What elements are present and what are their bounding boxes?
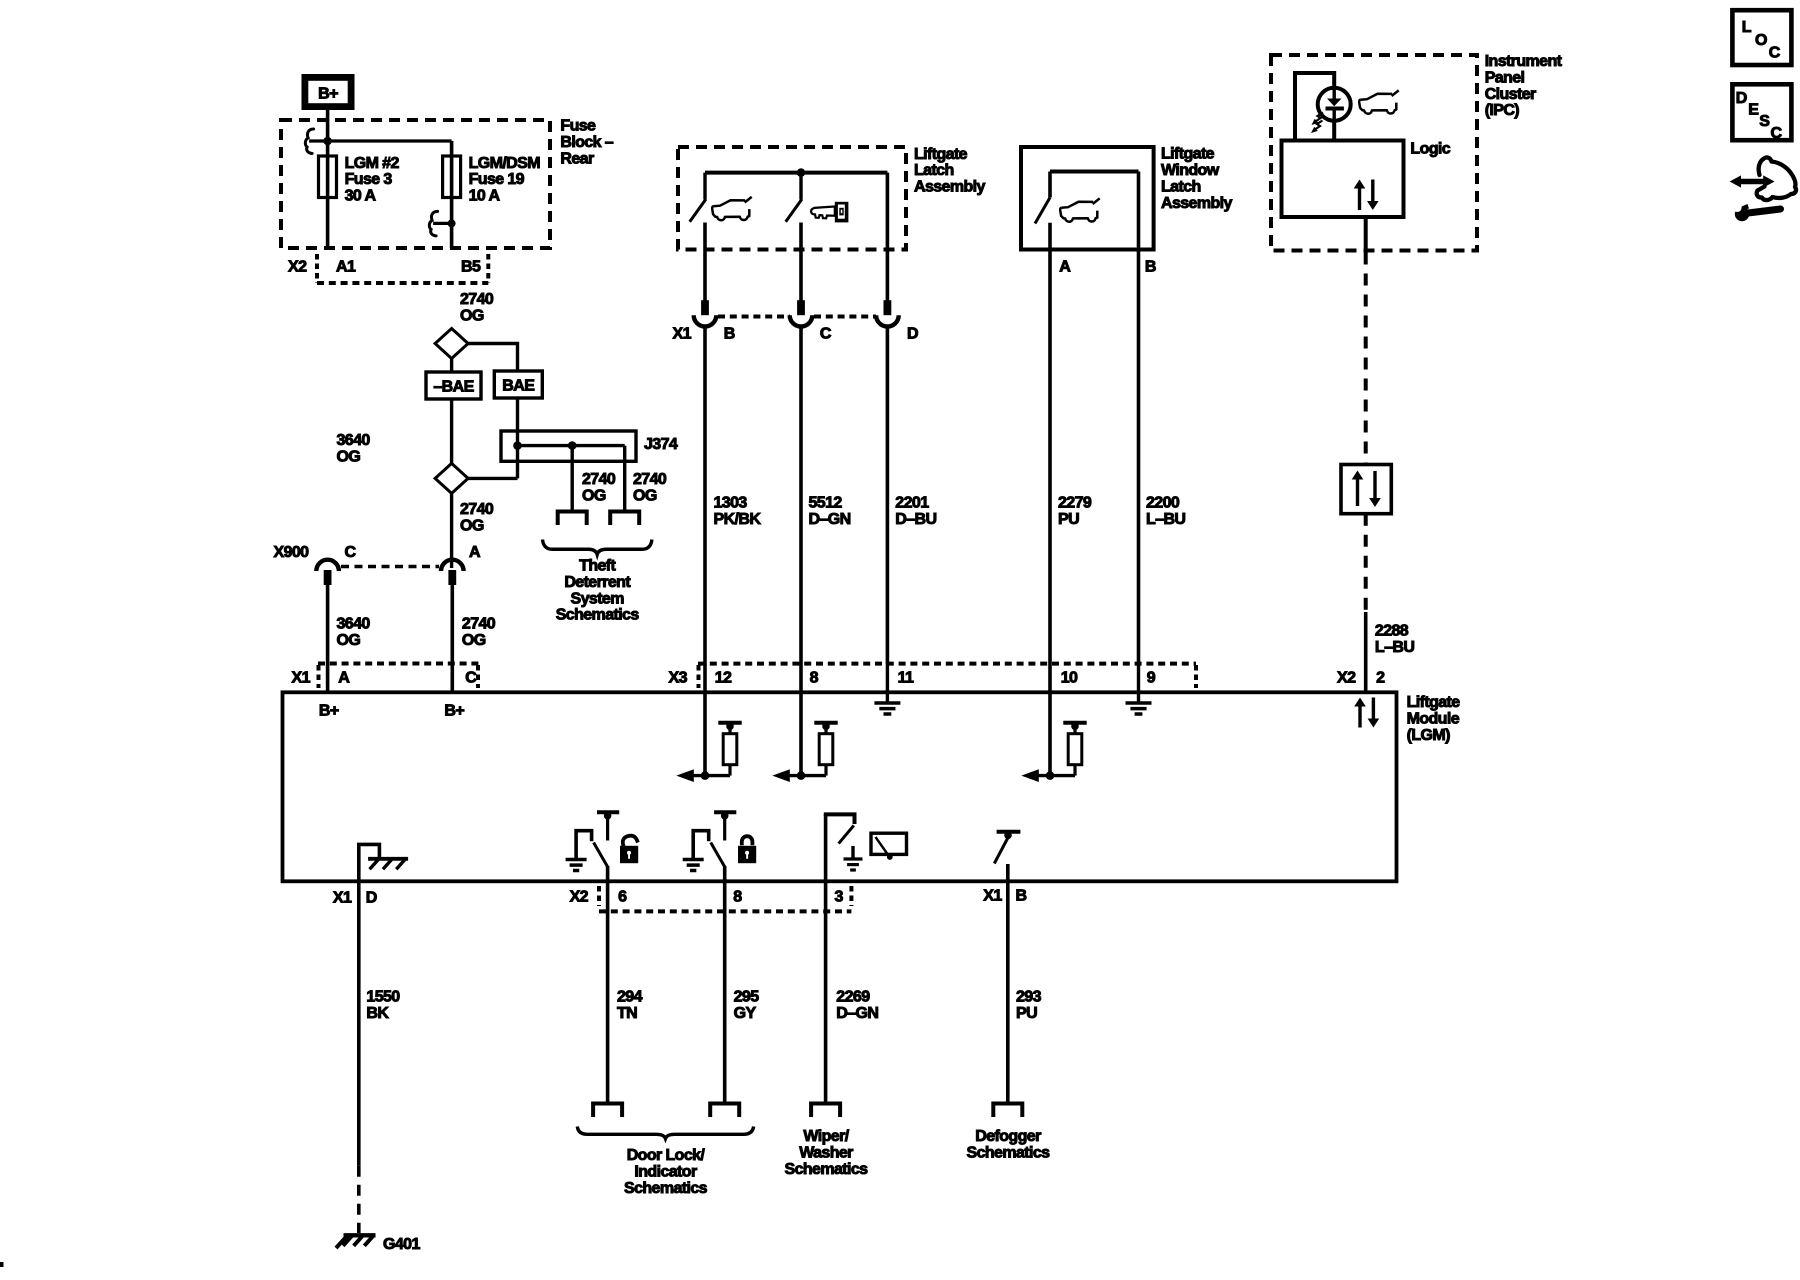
- wire 2279 PU: [1048, 223, 1052, 664]
- wire: X900-C to LGM X1-A: [326, 584, 330, 692]
- svg-text:E: E: [1748, 102, 1759, 119]
- svg-text:D: D: [366, 890, 377, 907]
- wire 5512 D-GN: [799, 326, 803, 664]
- liftgate latch assembly dashed box: [678, 147, 906, 250]
- label: Logic: [1410, 140, 1450, 157]
- pin 9 label: [1147, 670, 1156, 687]
- terminal to theft deterrent 1: [558, 512, 587, 526]
- logic up/down arrows: [1354, 180, 1379, 211]
- wire label 2279 PU: [1058, 495, 1092, 528]
- wire 293 PU: [1006, 882, 1010, 1104]
- svg-text:G401: G401: [383, 1236, 420, 1253]
- LED indicator: [1318, 88, 1351, 121]
- internal pull-up pin 10: [1021, 664, 1086, 782]
- svg-text:FuseBlock –Rear: FuseBlock –Rear: [560, 118, 613, 168]
- wire label 295 GY: [734, 989, 760, 1022]
- pin 3 label: [835, 889, 844, 906]
- svg-text:2269D–GN: 2269D–GN: [836, 989, 878, 1022]
- unlock switch pin 6: [566, 812, 620, 882]
- pin 8 label (bottom): [733, 889, 742, 906]
- liftgate module LGM box: [283, 692, 1397, 881]
- battery feed symbol B+: [305, 77, 351, 106]
- unlock padlock icon: [620, 836, 638, 864]
- wire: J374 to theft terminal 1: [571, 446, 574, 512]
- terminal to theft deterrent 2: [610, 512, 639, 526]
- terminal 294: [593, 1104, 622, 1118]
- svg-text:6: 6: [618, 889, 627, 906]
- fuse LGM/DSM Fuse 19 10A: [443, 156, 461, 198]
- label: X1 (latch): [673, 326, 692, 343]
- svg-text:2740OG: 2740OG: [633, 471, 667, 504]
- connector X900 pin C: [316, 560, 339, 585]
- svg-text:LGM #2Fuse 330 A: LGM #2Fuse 330 A: [345, 155, 400, 205]
- terminal 293: [993, 1104, 1022, 1118]
- label: X2: [288, 259, 307, 276]
- wire label 2288 L-BU: [1375, 623, 1414, 656]
- wire: J374 to theft terminal 2: [623, 446, 626, 512]
- svg-text:A1: A1: [336, 259, 356, 276]
- svg-text:2288L–BU: 2288L–BU: [1375, 623, 1414, 656]
- terminal 2269: [811, 1104, 840, 1118]
- svg-text:A: A: [469, 544, 481, 561]
- svg-text:295GY: 295GY: [734, 989, 760, 1022]
- internal pull-up pin 12: [676, 664, 741, 782]
- svg-text:B5: B5: [461, 259, 481, 276]
- svg-text:D: D: [907, 326, 918, 343]
- car icon (window latch): [1060, 198, 1100, 221]
- label: X2 bottom: [570, 889, 589, 906]
- pin B label (window latch): [1145, 259, 1156, 276]
- label: Liftgate Module (LGM): [1407, 694, 1461, 744]
- wire: 2288 L-BU to LGM X2-2: [1364, 612, 1368, 692]
- pin A label (LGM): [338, 670, 350, 687]
- pin 11 label: [898, 670, 914, 687]
- latch internal bus: [705, 168, 887, 177]
- fuse block rear dashed box: [281, 120, 550, 248]
- svg-text:B+: B+: [444, 703, 464, 720]
- pin B label (bottom): [1016, 888, 1027, 905]
- wire: splice to BAE: [468, 344, 517, 372]
- instrument panel cluster dashed box: [1271, 55, 1477, 251]
- wire: splice through -BAE: [450, 359, 453, 464]
- svg-text:X2: X2: [570, 889, 589, 906]
- indicator housing: [1295, 73, 1334, 141]
- wire label 2269 D-GN: [836, 989, 878, 1022]
- dashed wire: arrow box to 2288: [1364, 514, 1368, 612]
- label: X900: [274, 544, 310, 561]
- label: Liftgate Latch Assembly: [914, 146, 985, 196]
- label: LGM/DSM Fuse 19 10 A: [469, 155, 541, 205]
- svg-text:B: B: [1016, 888, 1027, 905]
- svg-text:Logic: Logic: [1410, 140, 1450, 157]
- brace theft deterrent: [543, 540, 652, 555]
- svg-text:C: C: [465, 670, 477, 687]
- DESC reference box: [1732, 84, 1791, 142]
- svg-text:DefoggerSchematics: DefoggerSchematics: [967, 1128, 1051, 1161]
- key icon: [811, 202, 848, 223]
- car icon (IPC): [1359, 90, 1399, 113]
- svg-text:X1: X1: [983, 888, 1002, 905]
- liftgate window latch assembly box: [1021, 147, 1154, 250]
- svg-text:2740OG: 2740OG: [460, 501, 494, 534]
- svg-text:B: B: [1145, 259, 1156, 276]
- wire label 2740 OG: [460, 291, 494, 324]
- svg-text:X1: X1: [333, 890, 352, 907]
- svg-text:LiftgateModule(LGM): LiftgateModule(LGM): [1407, 694, 1461, 744]
- label: Door Lock/Indicator Schematics: [624, 1147, 708, 1197]
- pin D label (bottom): [366, 890, 377, 907]
- svg-text:O: O: [1755, 32, 1767, 49]
- connector X900 dashes: [341, 565, 439, 569]
- svg-text:Door Lock/IndicatorSchematics: Door Lock/IndicatorSchematics: [624, 1147, 708, 1197]
- pin 12 label: [715, 670, 732, 687]
- wire label 2740 OG (theft 1): [582, 471, 616, 504]
- svg-text:X900: X900: [274, 544, 310, 561]
- wire label 293 PU: [1016, 989, 1042, 1022]
- wire 2200 L-BU: [1137, 172, 1141, 665]
- svg-text:InstrumentPanelCluster(IPC): InstrumentPanelCluster(IPC): [1485, 53, 1563, 119]
- wiper switch pin 3: [824, 814, 863, 882]
- pin 8 label: [810, 670, 819, 687]
- svg-text:–BAE: –BAE: [433, 379, 474, 396]
- lock switch pin 8: [683, 812, 737, 882]
- wire: BAE down through J374 to lower splice branch: [516, 398, 519, 478]
- svg-text:C: C: [1771, 125, 1783, 142]
- wire: X900-A to LGM X1-C: [450, 584, 454, 692]
- label: Defogger Schematics: [967, 1128, 1051, 1161]
- svg-text:11: 11: [898, 670, 914, 687]
- logic box: [1282, 141, 1404, 218]
- svg-text:2740OG: 2740OG: [582, 471, 616, 504]
- svg-text:X2: X2: [1337, 670, 1356, 687]
- label: Fuse Block - Rear: [560, 118, 613, 168]
- wire: lower splice to X900-A: [450, 493, 453, 568]
- LGM up/down arrows: [1354, 698, 1379, 728]
- svg-text:BAE: BAE: [502, 378, 535, 395]
- svg-text:X1: X1: [673, 326, 692, 343]
- pin C label: [345, 544, 357, 561]
- connector X1 latch row dashes: [718, 315, 876, 319]
- fuse LGM #2 Fuse 3 30A: [319, 156, 337, 198]
- wire 2269 D-GN: [824, 882, 828, 1104]
- label: J374: [644, 436, 678, 453]
- svg-text:5512D–GN: 5512D–GN: [809, 495, 851, 528]
- svg-text:294TN: 294TN: [617, 989, 643, 1022]
- label: X3: [669, 670, 688, 687]
- wire label 294 TN: [617, 989, 643, 1022]
- schematic navigation icon (arrow + wrench): [1730, 158, 1796, 222]
- svg-text:C: C: [820, 326, 832, 343]
- clip symbol on B+ feed: [305, 129, 327, 154]
- svg-text:C: C: [1769, 44, 1781, 61]
- defogger switch pin B: [994, 832, 1020, 883]
- svg-text:1303PK/BK: 1303PK/BK: [714, 495, 762, 528]
- svg-text:2201D–BU: 2201D–BU: [895, 495, 936, 528]
- wire: B+ feed down through fuse LGM#2 to connector X2-A1: [326, 107, 330, 248]
- splice diamond upper: [435, 329, 468, 359]
- lock padlock icon: [738, 836, 756, 863]
- connector pin B: [694, 300, 717, 326]
- brace door lock: [577, 1127, 753, 1139]
- svg-text:10: 10: [1061, 670, 1078, 687]
- pin A label (window latch): [1059, 259, 1071, 276]
- latch ajar switch: [690, 173, 706, 302]
- svg-text:D: D: [1736, 90, 1747, 107]
- label: Liftgate Window Latch Assembly: [1161, 146, 1232, 212]
- box -BAE: [426, 372, 481, 399]
- svg-text:A: A: [338, 670, 350, 687]
- terminal 295: [710, 1104, 739, 1118]
- wire 294 TN: [606, 882, 610, 1104]
- svg-text:293PU: 293PU: [1016, 989, 1042, 1022]
- svg-text:9: 9: [1147, 670, 1156, 687]
- car icon (latch): [712, 197, 752, 220]
- box BAE: [494, 371, 542, 398]
- ground G401: [336, 1235, 376, 1248]
- window latch switch: [1035, 172, 1139, 224]
- window up/down box: [1341, 465, 1391, 514]
- wire label 2740 OG (above X900): [460, 501, 494, 534]
- svg-text:1550BK: 1550BK: [366, 989, 400, 1022]
- svg-text:12: 12: [715, 670, 732, 687]
- LED emission arrows: [1311, 113, 1323, 134]
- svg-text:X2: X2: [288, 259, 307, 276]
- pin B label: [724, 326, 735, 343]
- svg-text:B: B: [724, 326, 735, 343]
- connector X900 pin A: [441, 560, 464, 585]
- connector X3 row: [698, 664, 1196, 688]
- label: G401: [383, 1236, 420, 1253]
- page speck: [0, 1262, 4, 1267]
- wire 1550 BK to G401: [357, 882, 361, 1233]
- svg-text:3640OG: 3640OG: [337, 615, 371, 648]
- pin A1: [336, 259, 356, 276]
- svg-text:LGM/DSMFuse 1910 A: LGM/DSMFuse 1910 A: [469, 155, 541, 205]
- pin C label (LGM): [465, 670, 477, 687]
- wire label 3640 OG: [337, 432, 371, 465]
- internal ground pin 9: [1126, 664, 1152, 714]
- internal chassis ground pin D: [359, 844, 408, 882]
- LOC reference box: [1732, 10, 1791, 65]
- dashed wire: IPC to window arrow box: [1364, 253, 1368, 465]
- pin C label: [820, 326, 832, 343]
- svg-text:X1: X1: [292, 670, 311, 687]
- junction dot + branch wire to fuse 19: [323, 137, 451, 248]
- connector X1 row (LGM top left): [318, 664, 480, 689]
- wire label 5512 D-GN: [809, 495, 851, 528]
- wire: lower splice branch to BAE leg: [468, 477, 517, 480]
- connector J374 box: [501, 431, 636, 461]
- wiper icon: [871, 833, 907, 860]
- svg-text:8: 8: [733, 889, 742, 906]
- wire: logic to IPC edge: [1364, 217, 1368, 253]
- wire 2201 D-BU: [886, 326, 890, 664]
- svg-text:TheftDeterrentSystemSchematics: TheftDeterrentSystemSchematics: [556, 558, 640, 624]
- svg-text:B+: B+: [318, 86, 338, 103]
- svg-text:2279PU: 2279PU: [1058, 495, 1092, 528]
- clip symbol on fuse 19 output: [429, 211, 455, 236]
- label: LGM #2 Fuse 3 30 A: [345, 155, 400, 205]
- label: X1 D row: [333, 890, 352, 907]
- label: X1 B row: [983, 888, 1002, 905]
- label: Wiper/Washer Schematics: [785, 1128, 869, 1178]
- connector pin D: [876, 300, 899, 326]
- pin 2 label: [1376, 670, 1385, 687]
- internal B+ label C: [444, 703, 464, 720]
- pin 10 label: [1061, 670, 1078, 687]
- svg-text:A: A: [1059, 259, 1071, 276]
- pin A label: [469, 544, 481, 561]
- wire label 1550 BK: [366, 989, 400, 1022]
- wire label 2200 L-BU: [1146, 495, 1185, 528]
- connector X2 (fuse block) dashes: [317, 254, 488, 283]
- svg-text:J374: J374: [644, 436, 678, 453]
- connector pin C: [790, 300, 813, 326]
- svg-text:C: C: [345, 544, 357, 561]
- svg-text:B+: B+: [319, 703, 339, 720]
- svg-text:LiftgateLatchAssembly: LiftgateLatchAssembly: [914, 146, 985, 196]
- svg-text:2740OG: 2740OG: [462, 615, 496, 648]
- J374 internal bus + junctions: [513, 441, 625, 450]
- internal ground pin 11: [874, 664, 900, 714]
- label: Instrument Panel Cluster (IPC): [1485, 53, 1563, 119]
- wire: latch pin D feed: [886, 173, 890, 302]
- svg-text:Wiper/WasherSchematics: Wiper/WasherSchematics: [785, 1128, 869, 1178]
- label: X1: [292, 670, 311, 687]
- label: X2 (LGM top): [1337, 670, 1356, 687]
- svg-text:S: S: [1759, 113, 1770, 130]
- wire label 2201 D-BU: [895, 495, 936, 528]
- svg-text:8: 8: [810, 670, 819, 687]
- svg-text:3640OG: 3640OG: [337, 432, 371, 465]
- internal B+ label A: [319, 703, 339, 720]
- svg-text:2: 2: [1376, 670, 1385, 687]
- svg-text:L: L: [1742, 19, 1752, 36]
- pin 6 label: [618, 889, 627, 906]
- label: Theft Deterrent System Schematics: [556, 558, 640, 624]
- svg-text:LiftgateWindowLatchAssembly: LiftgateWindowLatchAssembly: [1161, 146, 1232, 212]
- svg-text:2740OG: 2740OG: [460, 291, 494, 324]
- splice diamond lower: [435, 463, 468, 493]
- wire label 1303 PK/BK: [714, 495, 762, 528]
- svg-text:X3: X3: [669, 670, 688, 687]
- svg-text:2200L–BU: 2200L–BU: [1146, 495, 1185, 528]
- wire 295 GY: [723, 882, 727, 1104]
- svg-text:3: 3: [835, 889, 844, 906]
- wire label 2740 OG (lower): [462, 615, 496, 648]
- connector X2 bottom row: [599, 886, 851, 911]
- wire 1303 PK/BK: [703, 326, 707, 664]
- wire label 3640 OG (lower): [337, 615, 371, 648]
- pin B5: [461, 259, 481, 276]
- internal pull-up pin 8: [772, 664, 837, 782]
- key cylinder switch: [786, 173, 802, 302]
- pin D label: [907, 326, 918, 343]
- wire label 2740 OG (theft 2): [633, 471, 667, 504]
